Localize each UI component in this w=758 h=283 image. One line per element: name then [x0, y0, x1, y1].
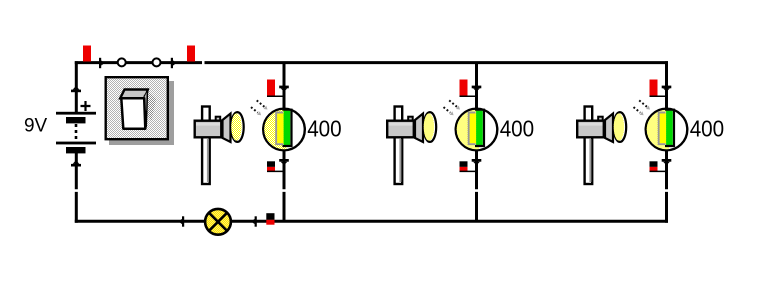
svg-text:9V: 9V: [24, 114, 48, 136]
